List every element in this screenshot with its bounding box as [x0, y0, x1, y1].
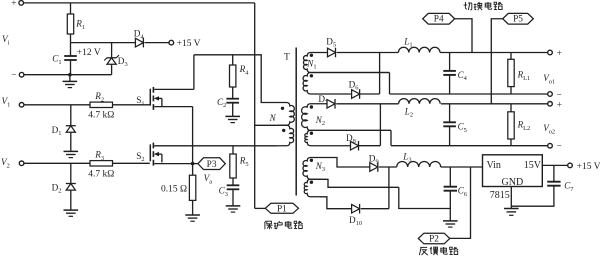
- wire R1 top stub: [70, 3, 72, 14]
- wire C7 top lead: [553, 165, 555, 181]
- wire S2 drain to primary bottom: [154, 145, 277, 147]
- terminal V2 input: [19, 161, 24, 166]
- terminal +15V (driver supply): [169, 40, 174, 45]
- wire P5 to Vo2+ rail: [491, 19, 502, 104]
- resistor R3: [90, 161, 113, 166]
- resistor R2: [90, 102, 113, 107]
- svg-text:+15 V: +15 V: [577, 162, 600, 172]
- terminal − input: [19, 72, 24, 77]
- wire L1 to Vo1+ terminal: [440, 52, 548, 54]
- wire D3 top lead: [111, 43, 113, 58]
- terminal Vo2 +: [548, 102, 553, 107]
- polarity dot N2 g1: [310, 105, 313, 108]
- svg-text:0.15 Ω: 0.15 Ω: [161, 185, 187, 195]
- junction dot sources: [191, 162, 195, 166]
- wire shunt top stub: [192, 164, 194, 176]
- polarity dot primary g2: [282, 129, 285, 132]
- diode D5: [328, 48, 336, 57]
- svg-text:P3: P3: [207, 160, 217, 170]
- wire RL1 top stub: [510, 53, 512, 60]
- inductor L2: [399, 99, 441, 104]
- svg-text:+: +: [557, 100, 562, 110]
- polarity dot primary g1: [281, 107, 284, 110]
- svg-text:P1: P1: [277, 205, 287, 215]
- secondary winding N1: [303, 53, 389, 73]
- wire − rail: [24, 74, 112, 76]
- wire S1 drain to primary top: [194, 55, 278, 103]
- wire D7 cathode to L2: [336, 103, 398, 105]
- svg-text:P4: P4: [434, 15, 444, 25]
- ground below C6: [443, 220, 458, 222]
- diode D8: [351, 141, 359, 150]
- wire D1 bottom lead: [70, 132, 72, 151]
- polarity dot N2 g2: [310, 132, 313, 135]
- wire +12V node rail: [71, 42, 136, 44]
- terminal Vo1 −: [548, 92, 553, 97]
- wire C1 bottom lead: [70, 61, 72, 75]
- polarity dot N3 g1: [310, 159, 313, 162]
- wire N3 tap drop: [399, 187, 451, 208]
- wire C4 bottom lead: [449, 75, 451, 94]
- svg-text:+: +: [557, 49, 562, 59]
- diode D6: [352, 90, 360, 99]
- wire S1 source lead: [154, 106, 192, 108]
- ground below D2: [64, 209, 79, 211]
- tag P3: [198, 158, 225, 170]
- transistor S1 (MOSFET): [149, 89, 151, 106]
- wire R5 top stub: [232, 146, 234, 154]
- wire D4 cathode to +15V terminal: [145, 42, 169, 44]
- wire N3 tap step: [322, 179, 399, 187]
- polarity dot N3 g2: [310, 181, 313, 184]
- primary winding group 2: [278, 125, 294, 146]
- wire C6 top lead: [449, 167, 451, 186]
- svg-text:−: −: [11, 71, 16, 81]
- wire C5 top lead: [449, 104, 451, 122]
- svg-text:15V: 15V: [524, 160, 542, 171]
- terminal + input (top left): [19, 1, 24, 6]
- polarity dot N1 g2: [310, 74, 313, 77]
- wire C1 top lead: [70, 43, 72, 56]
- tag P2: [418, 233, 450, 244]
- svg-text:7815: 7815: [490, 190, 510, 201]
- ground below C1: [69, 75, 71, 82]
- svg-text:+15 V: +15 V: [177, 39, 201, 49]
- wire N3 top lead step: [330, 158, 370, 168]
- secondary winding N2: [302, 104, 391, 131]
- diode D7: [327, 100, 335, 109]
- tag P5: [503, 13, 534, 24]
- resistor R4: [230, 65, 236, 87]
- capacitor C7: [547, 181, 560, 183]
- wire P1 lead: [255, 207, 266, 209]
- secondary winding N3: [303, 158, 330, 180]
- svg-text:GND: GND: [502, 177, 524, 188]
- label 保护电路 (protection circuit): [265, 221, 273, 229]
- wire D1 top lead: [70, 105, 72, 126]
- ground below 7815: [504, 208, 519, 210]
- wire D2 top lead: [70, 163, 72, 183]
- capacitor C6: [444, 186, 457, 188]
- wire R3 to S2 gate: [113, 162, 150, 164]
- inductor L3: [397, 162, 441, 167]
- polarity dot N1 g1: [310, 54, 313, 57]
- tag P4: [423, 13, 455, 24]
- terminal +15V output: [568, 163, 573, 168]
- svg-text:P2: P2: [429, 234, 439, 244]
- wire +rail riser / P1 riser: [254, 3, 256, 209]
- ground below shunt: [185, 214, 200, 216]
- wire S1 drain riser: [193, 55, 195, 90]
- resistor 0.15 Ohm shunt: [189, 175, 195, 200]
- zener diode D3: [107, 57, 116, 59]
- wire N3 bottom lead step: [320, 197, 352, 209]
- wire C4 top lead: [449, 53, 451, 71]
- wire C7 bottom lead: [511, 186, 554, 207]
- ground below C3: [226, 205, 241, 207]
- wire D10 cathode riser: [388, 167, 390, 209]
- wire C6 bottom lead: [449, 191, 451, 221]
- wire C3 bottom stub: [232, 189, 234, 206]
- capacitor C2: [226, 98, 239, 100]
- wire D8 cathode riser: [379, 104, 381, 146]
- svg-text:4.7 kΩ: 4.7 kΩ: [88, 111, 114, 121]
- wire D3 bottom lead: [111, 64, 113, 75]
- wire shunt bottom stub: [192, 200, 194, 215]
- wire N2 tap drop: [390, 130, 392, 145]
- wire top +V rail: [24, 2, 255, 4]
- ground below D1: [64, 150, 79, 152]
- diode D4: [135, 38, 143, 47]
- svg-text:T: T: [284, 53, 290, 63]
- wire R4 top stub: [232, 55, 234, 65]
- junction dot − rail: [68, 73, 72, 77]
- svg-text:Vin: Vin: [487, 160, 501, 171]
- diode D1: [66, 125, 76, 127]
- tag P1: [265, 203, 298, 213]
- wire V2 to R3: [24, 162, 90, 164]
- capacitor C4: [443, 70, 456, 72]
- terminal V1 input: [19, 103, 24, 108]
- wire R2 to S1 gate: [113, 104, 150, 106]
- transistor S2 (MOSFET): [149, 144, 151, 161]
- wire S2 source lead: [154, 163, 192, 165]
- wire L3 to 7815 Vin: [441, 166, 483, 168]
- resistor R5: [230, 154, 236, 178]
- wire C5 bottom lead: [449, 126, 451, 145]
- wire D8 row: [350, 145, 380, 147]
- wire R5 to C3: [232, 178, 234, 185]
- ground below C2: [225, 115, 240, 117]
- primary winding group 1: [278, 103, 295, 126]
- resistor RL1: [508, 59, 514, 86]
- diode D9: [370, 163, 378, 172]
- svg-text:+: +: [11, 0, 16, 9]
- wire RL2 top stub: [510, 104, 512, 112]
- wire P4 to Vo1+ rail: [455, 19, 472, 53]
- wire D9 cathode to L3: [379, 166, 397, 168]
- svg-text:P5: P5: [513, 15, 523, 25]
- capacitor C3: [227, 184, 240, 186]
- wire dot to P3: [193, 163, 198, 165]
- terminal Vo2 −: [548, 143, 553, 148]
- wire N1 tap drop: [389, 73, 391, 95]
- wire R4 to C2: [232, 87, 234, 98]
- wire primary centre tap lead: [255, 124, 278, 126]
- wire R1 bottom to +12V node: [70, 34, 72, 43]
- wire D2 bottom lead: [70, 190, 72, 210]
- diode D10: [352, 204, 360, 213]
- wire D6 cathode riser: [379, 53, 381, 95]
- capacitor C1: [64, 55, 77, 57]
- svg-text:N: N: [269, 113, 277, 123]
- capacitor C5: [443, 121, 456, 123]
- resistor R1: [67, 14, 73, 34]
- wire 15V output: [542, 164, 567, 166]
- wire C2 bottom stub: [232, 103, 234, 117]
- wire V1 to R2: [24, 104, 90, 106]
- wire P2 riser: [450, 167, 471, 238]
- wire D6 row: [350, 93, 379, 95]
- terminal Vo1 +: [548, 50, 553, 55]
- wire S1 source drop: [192, 107, 194, 164]
- transformer core: [295, 48, 297, 196]
- regulator U1 7815 box: [483, 155, 543, 187]
- inductor L1: [398, 47, 440, 52]
- wire GND pin drop: [510, 187, 512, 209]
- resistor RL2: [508, 112, 514, 139]
- label 切换电路 (switching circuit): [464, 2, 472, 10]
- svg-text:4.7 kΩ: 4.7 kΩ: [88, 170, 114, 180]
- svg-text:−: −: [557, 90, 562, 100]
- wire L2 to Vo2+ terminal: [441, 103, 548, 105]
- wire Vo2 return rail: [391, 145, 548, 147]
- wire S1 drain lead: [154, 88, 194, 90]
- wire D5 cathode to L1: [337, 52, 399, 54]
- wire D10 cathode row: [361, 208, 389, 210]
- wire RL2 bottom stub: [510, 139, 512, 146]
- svg-text:+12 V: +12 V: [77, 48, 101, 58]
- wire Vo1 return rail: [390, 93, 548, 95]
- wire RL1 bottom stub: [510, 87, 512, 94]
- svg-text:−: −: [557, 142, 562, 152]
- diode D2: [66, 183, 76, 185]
- label 反馈电路 (feedback circuit): [419, 247, 427, 255]
